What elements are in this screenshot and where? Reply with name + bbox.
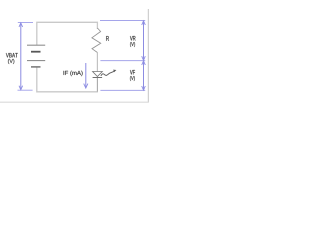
label IF (mA) [64,71,83,76]
wire: LED to bottom [96,78,98,92]
label (V) of VF [130,76,135,81]
battery plate short thick 1 [31,51,41,53]
resistor R zigzag [92,28,101,53]
LED cathode bar [93,77,103,79]
wire: resistor to LED [96,52,98,71]
label (V) of VBAT [8,59,14,64]
VF annotation arrow [100,61,145,90]
label VF [130,70,135,75]
label VBAT [6,53,18,57]
VR annotation arrow [100,21,145,61]
battery plate long top [27,44,45,46]
VBAT annotation arrow [18,23,34,91]
wire bottom: battery to LED [37,67,98,92]
LED light squiggle arrow [101,71,114,76]
battery plate long 2 [27,60,45,62]
LED triangle [93,72,103,77]
label (V) of VR [130,42,135,47]
table cell bottom border [0,101,149,103]
label VR [130,36,136,41]
label R [106,36,109,41]
wire top: battery to resistor [37,22,98,45]
table cell right border [147,9,149,102]
IF current arrow [85,63,87,88]
battery plate short thick 2 [31,66,41,68]
